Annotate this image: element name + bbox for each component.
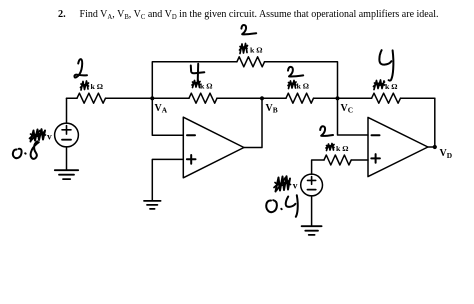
op-amp U1 minus sign (inverting input mark) [187, 134, 195, 136]
ground of op-amp U1 non-inverting input [144, 201, 161, 209]
wire source V2 up to resistor R6 [312, 160, 324, 174]
wire node B to resistor R4 [262, 97, 286, 99]
op-amp U1 [183, 117, 244, 178]
wire R2 to node B [217, 97, 262, 99]
handwritten 0.4 beside source V2 [266, 200, 277, 212]
handwritten value 4 over R2 [191, 66, 205, 74]
svg-text:k Ω: k Ω [297, 81, 310, 90]
wire V1 bottom to ground [66, 147, 68, 170]
op-amp U1 plus sign (non-inverting input mark) [187, 155, 196, 164]
wire node A to inverting input of U1 [152, 98, 183, 135]
op-amp U2 [368, 117, 428, 176]
scribble on R6 value [326, 144, 334, 151]
wire V2 bottom to ground [311, 196, 313, 226]
handwritten value 2 over R6 [320, 126, 333, 136]
ground of source V1 [55, 170, 78, 179]
op-amp U2 plus sign (non-inverting input mark) [371, 154, 380, 163]
scribble over original V1 value [31, 129, 46, 141]
svg-text:VA: VA [155, 103, 168, 115]
scribble on R2 value [192, 80, 200, 88]
resistor R5 (4 kOhm feedback of op-amp U2) [372, 93, 401, 103]
V1 plus sign [62, 126, 71, 135]
wire V1 top to main rail [66, 98, 68, 123]
V1 minus sign [62, 139, 71, 141]
ground of source V2 [302, 226, 322, 235]
svg-text:VB: VB [266, 103, 278, 115]
wire U1 output to node B [244, 98, 262, 147]
svg-text:Find VA, VB, VC and VD in the: Find VA, VB, VC and VD in the given circ… [80, 9, 439, 21]
handwritten annotations [13, 25, 394, 217]
wire R1 to node A [106, 97, 153, 99]
svg-text:v: v [47, 133, 52, 143]
svg-text:k Ω: k Ω [250, 46, 263, 55]
node C junction dot [335, 96, 339, 100]
handwritten value 2 over R1 [74, 59, 87, 77]
node A junction dot [150, 96, 154, 100]
voltage source V1 (0.8 V) circle [55, 123, 79, 147]
handwritten value 4 over R5 [379, 50, 391, 64]
wire R6 to non-inverting input of U2 [351, 159, 368, 161]
wire node D up to feedback resistor R5 [434, 98, 436, 147]
resistor R4 (2 kOhm between node B and node C) [286, 93, 314, 103]
scribble on R1 value [81, 81, 89, 90]
svg-text:2.: 2. [58, 9, 66, 20]
scribbles over original resistor values [81, 44, 385, 151]
wire top rail from R3 down to node C [265, 62, 338, 98]
handwritten value 2 over R4 [288, 67, 303, 77]
voltage source V2 (0.4 V) circle [301, 174, 323, 196]
wire feedback branch node A up to top rail [152, 62, 237, 98]
wire U2 output to node D [428, 146, 435, 148]
op-amp U2 minus sign (inverting input mark) [372, 134, 380, 136]
scribble over original V2 value [276, 176, 291, 191]
wire node C to inverting input of U2 [338, 98, 369, 135]
scribble on R4 value [288, 81, 296, 89]
wire non-inverting input of U1 to ground [152, 159, 183, 200]
svg-text:k Ω: k Ω [336, 144, 349, 153]
scribble on R3 value [240, 44, 248, 54]
resistor R3 (2 kOhm feedback of op-amp U1) [237, 57, 265, 67]
svg-text:VD: VD [440, 148, 453, 160]
svg-text:v: v [293, 181, 298, 191]
wire main rail from source V1 to resistor R1 [67, 97, 78, 99]
V2 plus sign [308, 177, 316, 185]
node B junction dot [260, 96, 264, 100]
V2 minus sign [308, 189, 316, 191]
svg-text:VC: VC [341, 103, 354, 115]
svg-text:k Ω: k Ω [200, 81, 213, 90]
handwritten 0.8 beside source V1 [13, 149, 22, 158]
svg-text:k Ω: k Ω [91, 82, 104, 91]
title text [58, 9, 439, 21]
wire R5 to output feedback corner [401, 97, 435, 99]
wire node C to resistor R5 [338, 97, 372, 99]
svg-text:k Ω: k Ω [385, 82, 398, 91]
resistor R2 (4 kOhm) [189, 93, 217, 103]
resistor R6 (2 kOhm at + input of U2) [324, 155, 351, 165]
wire R4 to node C [314, 97, 338, 99]
handwritten value 2 over R3 [241, 25, 256, 34]
wire node A to resistor R2 [152, 97, 189, 99]
scribble on R5 value [374, 80, 385, 90]
node D junction dot [433, 145, 437, 149]
resistor R1 (2 kOhm input resistor) [77, 93, 106, 103]
